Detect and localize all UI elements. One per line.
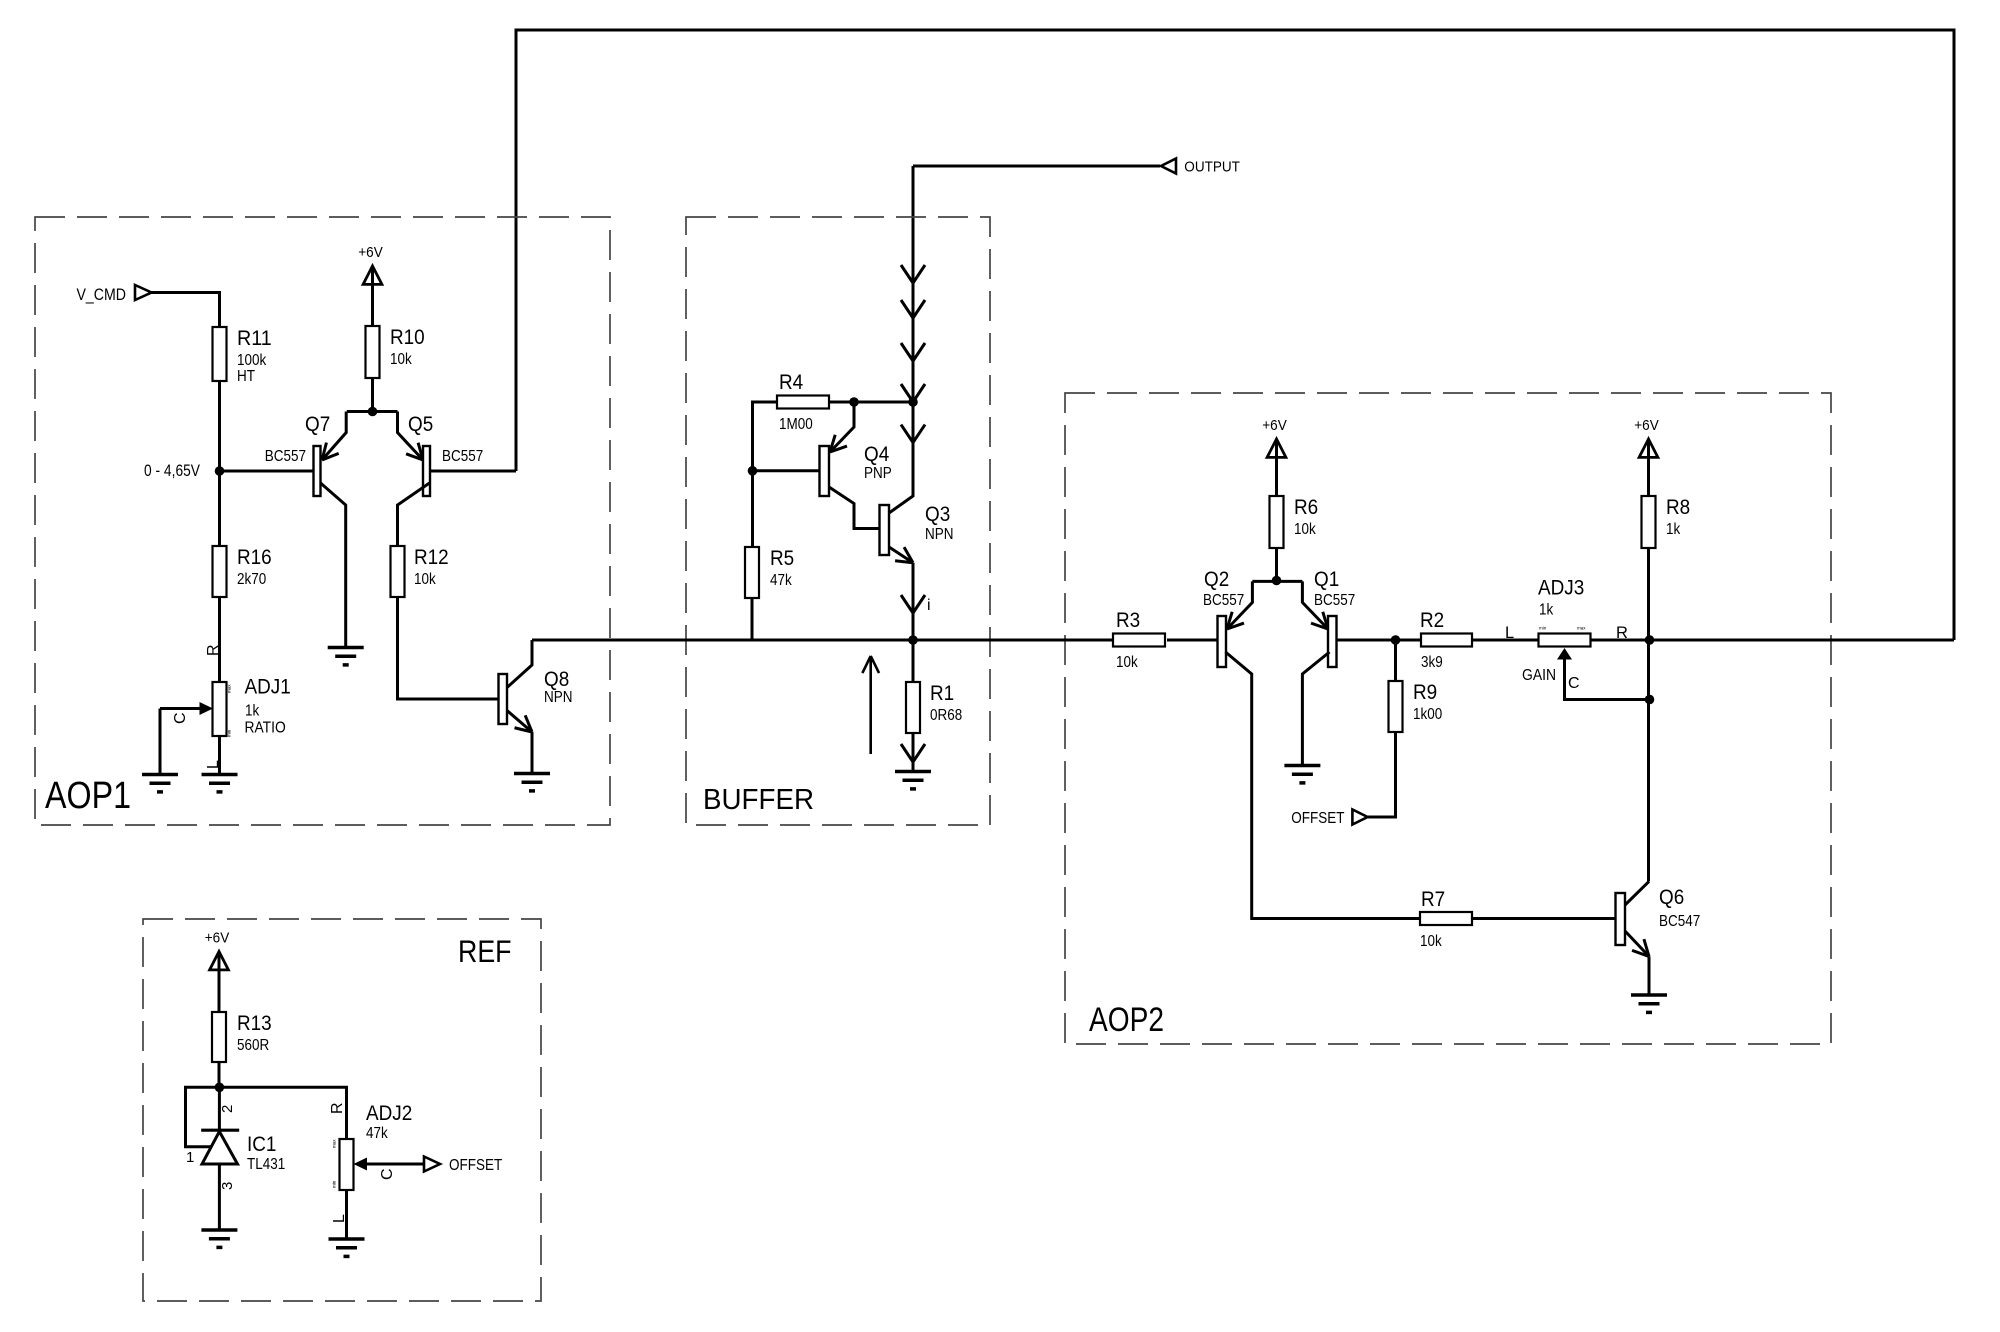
svg-text:R4: R4 bbox=[779, 370, 803, 394]
svg-text:47k: 47k bbox=[366, 1125, 388, 1142]
svg-text:R12: R12 bbox=[414, 545, 449, 569]
svg-text:Q5: Q5 bbox=[408, 412, 433, 436]
svg-text:ADJ3: ADJ3 bbox=[1538, 576, 1584, 600]
svg-text:max: max bbox=[332, 1139, 337, 1148]
svg-text:1k: 1k bbox=[1666, 521, 1680, 538]
svg-text:min: min bbox=[332, 1180, 337, 1188]
svg-text:R1: R1 bbox=[930, 681, 954, 705]
svg-text:2k70: 2k70 bbox=[237, 571, 267, 588]
svg-text:1M00: 1M00 bbox=[779, 416, 813, 433]
svg-text:BUFFER: BUFFER bbox=[703, 784, 814, 816]
svg-text:min: min bbox=[1539, 626, 1547, 631]
svg-text:R7: R7 bbox=[1421, 887, 1445, 911]
svg-text:2: 2 bbox=[219, 1105, 236, 1113]
svg-text:Q2: Q2 bbox=[1204, 567, 1229, 591]
svg-text:i: i bbox=[927, 597, 931, 614]
svg-text:ADJ1: ADJ1 bbox=[245, 675, 291, 699]
svg-text:BC557: BC557 bbox=[1314, 592, 1355, 609]
svg-text:1k: 1k bbox=[1539, 602, 1553, 619]
svg-text:BC557: BC557 bbox=[1203, 592, 1244, 609]
svg-text:IC1: IC1 bbox=[247, 1132, 276, 1156]
svg-text:R13: R13 bbox=[237, 1011, 272, 1035]
svg-text:Q8: Q8 bbox=[544, 667, 569, 691]
svg-text:Q1: Q1 bbox=[1314, 567, 1339, 591]
svg-text:NPN: NPN bbox=[544, 689, 573, 706]
svg-text:R11: R11 bbox=[237, 326, 272, 350]
svg-text:BC557: BC557 bbox=[442, 448, 483, 465]
svg-text:10k: 10k bbox=[390, 351, 412, 368]
svg-text:+6V: +6V bbox=[358, 245, 383, 261]
svg-text:BC557: BC557 bbox=[265, 448, 306, 465]
svg-text:10k: 10k bbox=[1420, 933, 1442, 950]
svg-text:Q7: Q7 bbox=[305, 412, 330, 436]
svg-text:OFFSET: OFFSET bbox=[1291, 810, 1345, 827]
svg-text:10k: 10k bbox=[1294, 521, 1316, 538]
svg-text:C: C bbox=[1568, 675, 1580, 692]
svg-text:R2: R2 bbox=[1420, 608, 1444, 632]
svg-text:TL431: TL431 bbox=[247, 1156, 285, 1173]
svg-text:OUTPUT: OUTPUT bbox=[1184, 158, 1240, 175]
svg-text:+6V: +6V bbox=[1634, 418, 1659, 434]
svg-text:OFFSET: OFFSET bbox=[449, 1157, 503, 1174]
svg-text:AOP1: AOP1 bbox=[45, 775, 131, 817]
svg-text:L: L bbox=[1505, 624, 1514, 642]
svg-text:R16: R16 bbox=[237, 545, 272, 569]
svg-text:R3: R3 bbox=[1116, 608, 1140, 632]
svg-text:NPN: NPN bbox=[925, 526, 954, 543]
svg-text:0 - 4,65V: 0 - 4,65V bbox=[144, 461, 201, 480]
svg-text:Q3: Q3 bbox=[925, 502, 950, 526]
svg-text:47k: 47k bbox=[770, 572, 792, 589]
svg-text:1k00: 1k00 bbox=[1413, 706, 1443, 723]
svg-text:PNP: PNP bbox=[864, 465, 892, 482]
svg-text:min: min bbox=[227, 729, 232, 737]
svg-text:BC547: BC547 bbox=[1659, 913, 1700, 930]
svg-text:10k: 10k bbox=[1116, 654, 1138, 671]
svg-text:0R68: 0R68 bbox=[930, 707, 962, 724]
svg-text:560R: 560R bbox=[237, 1037, 269, 1054]
svg-text:max: max bbox=[227, 684, 232, 693]
svg-text:R10: R10 bbox=[390, 325, 425, 349]
svg-text:+6V: +6V bbox=[205, 931, 230, 947]
svg-text:AOP2: AOP2 bbox=[1089, 1001, 1164, 1039]
svg-text:10k: 10k bbox=[414, 571, 436, 588]
svg-text:R: R bbox=[329, 1102, 346, 1114]
svg-text:R9: R9 bbox=[1413, 680, 1437, 704]
svg-text:V_CMD: V_CMD bbox=[77, 285, 127, 304]
svg-text:R: R bbox=[205, 644, 222, 656]
svg-text:R8: R8 bbox=[1666, 495, 1690, 519]
svg-text:C: C bbox=[379, 1168, 396, 1180]
svg-text:RATIO: RATIO bbox=[245, 720, 286, 737]
svg-text:1: 1 bbox=[186, 1149, 194, 1166]
svg-text:REF: REF bbox=[458, 933, 512, 969]
svg-text:max: max bbox=[1577, 626, 1586, 631]
svg-text:GAIN: GAIN bbox=[1522, 667, 1556, 684]
svg-text:C: C bbox=[172, 712, 189, 724]
svg-text:L: L bbox=[205, 760, 222, 769]
svg-text:Q6: Q6 bbox=[1659, 885, 1684, 909]
svg-text:HT: HT bbox=[237, 368, 255, 385]
svg-text:R5: R5 bbox=[770, 546, 794, 570]
svg-text:100k: 100k bbox=[237, 352, 266, 369]
svg-text:Q4: Q4 bbox=[864, 442, 889, 466]
svg-text:+6V: +6V bbox=[1262, 418, 1287, 434]
svg-text:1k: 1k bbox=[245, 703, 259, 720]
svg-text:R6: R6 bbox=[1294, 495, 1318, 519]
svg-text:3k9: 3k9 bbox=[1421, 654, 1443, 671]
svg-text:R: R bbox=[1616, 624, 1628, 642]
svg-text:ADJ2: ADJ2 bbox=[366, 1101, 412, 1125]
svg-text:3: 3 bbox=[219, 1182, 236, 1190]
